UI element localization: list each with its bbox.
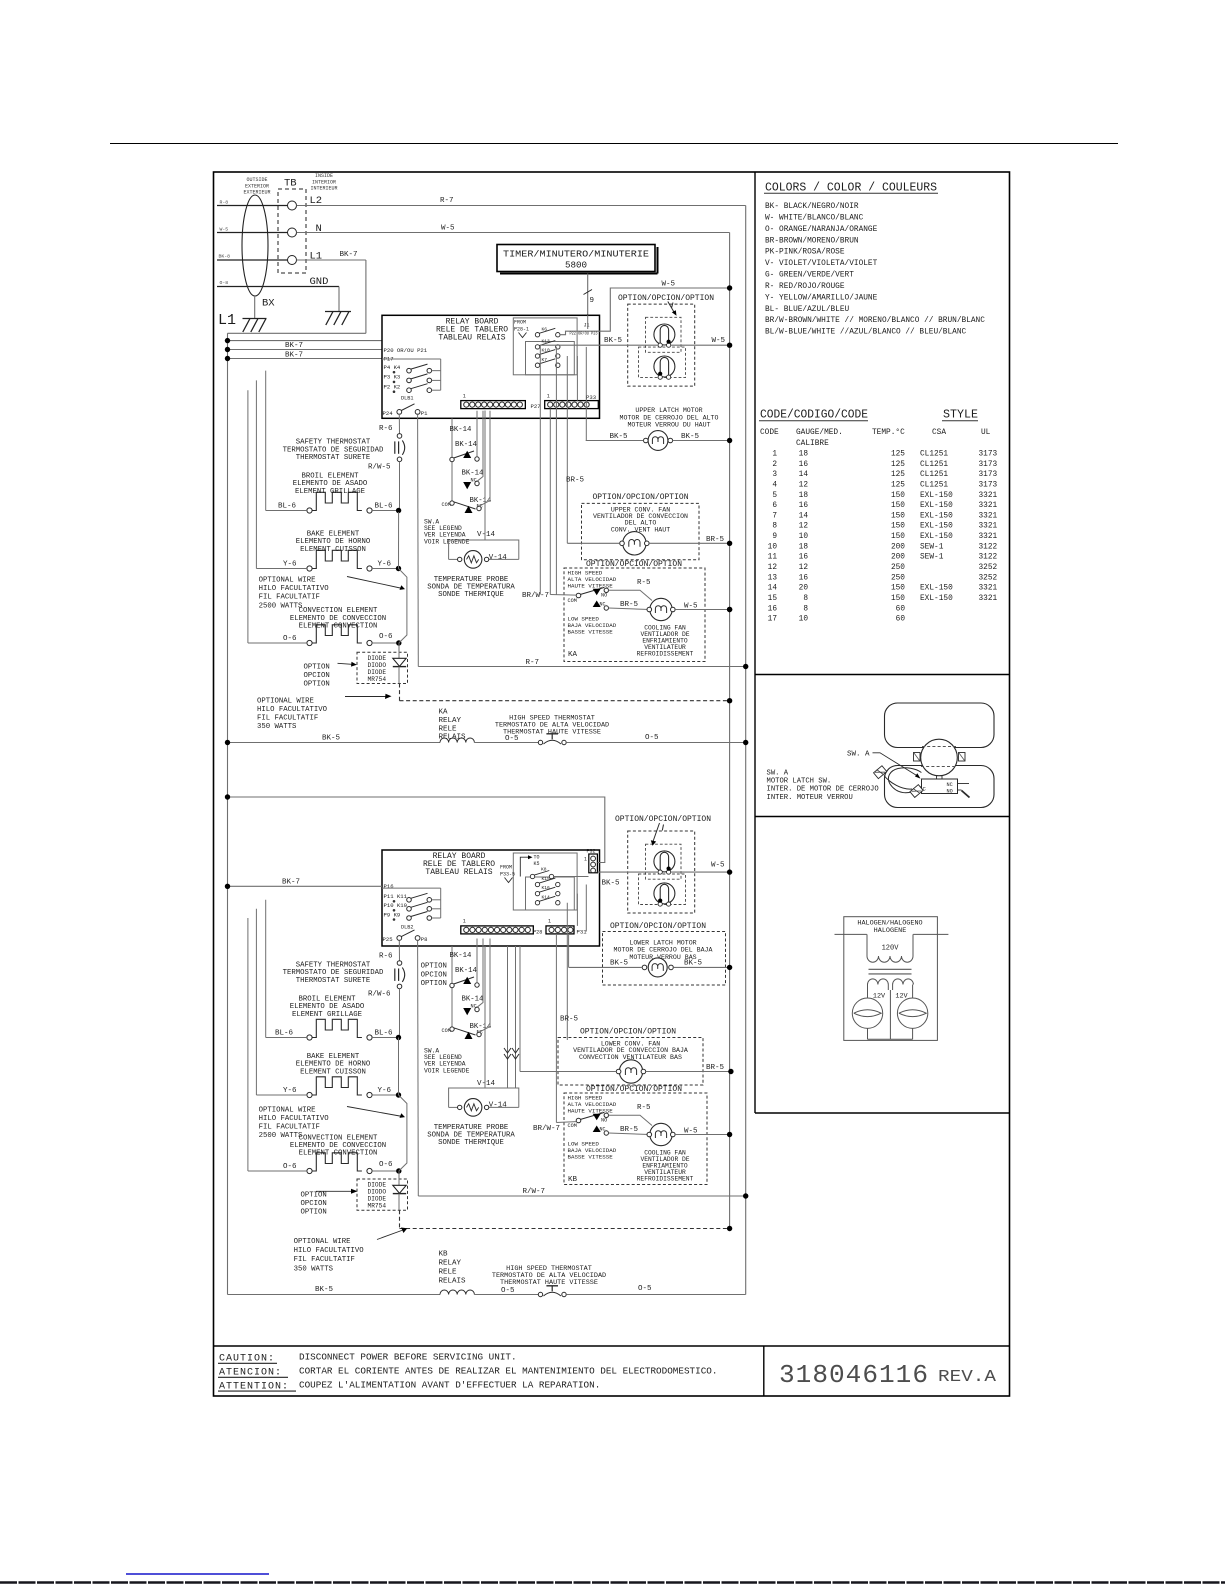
svg-text:W-5: W-5	[711, 862, 725, 870]
svg-text:V-14: V-14	[477, 1080, 496, 1088]
svg-text:SW. A: SW. A	[767, 770, 789, 778]
svg-text:CODE/CODIGO/CODE: CODE/CODIGO/CODE	[760, 409, 868, 422]
svg-text:EXL-150: EXL-150	[920, 523, 953, 531]
svg-text:BK-8: BK-8	[219, 254, 231, 260]
svg-text:KA: KA	[568, 651, 578, 659]
svg-text:12: 12	[768, 564, 778, 572]
svg-text:BR-5: BR-5	[620, 601, 639, 609]
svg-text:1: 1	[772, 451, 777, 459]
svg-text:3173: 3173	[979, 471, 998, 479]
svg-text:R-7: R-7	[526, 659, 540, 667]
svg-text:R-8: R-8	[220, 200, 229, 206]
svg-text:V-14: V-14	[489, 554, 508, 562]
svg-text:R-6: R-6	[379, 952, 393, 960]
svg-text:CL1251: CL1251	[920, 481, 948, 489]
svg-text:DIODE: DIODE	[368, 669, 387, 676]
svg-text:1: 1	[463, 919, 466, 925]
svg-text:8: 8	[803, 605, 808, 613]
svg-text:R/W-5: R/W-5	[368, 464, 391, 472]
svg-text:9: 9	[772, 533, 777, 541]
svg-text:COM: COM	[568, 1123, 577, 1129]
svg-text:STYLE: STYLE	[943, 409, 978, 422]
svg-text:INTER. MOTEUR VERROU: INTER. MOTEUR VERROU	[767, 794, 853, 802]
svg-text:150: 150	[891, 512, 905, 520]
svg-text:Y- YELLOW/AMARILLO/JAUNE: Y- YELLOW/AMARILLO/JAUNE	[765, 294, 878, 302]
svg-text:200: 200	[891, 554, 905, 562]
svg-text:10: 10	[799, 616, 809, 624]
svg-text:150: 150	[891, 585, 905, 593]
svg-text:13: 13	[768, 574, 778, 582]
svg-text:W-5: W-5	[441, 225, 455, 233]
svg-text:BL-6: BL-6	[375, 503, 394, 511]
svg-text:SW. A: SW. A	[847, 751, 870, 759]
svg-text:P20 OR/OU P21: P20 OR/OU P21	[384, 347, 428, 354]
svg-text:MR754: MR754	[368, 1203, 387, 1210]
svg-text:125: 125	[891, 451, 905, 459]
svg-text:RELE: RELE	[439, 1269, 458, 1277]
svg-text:9: 9	[590, 297, 595, 305]
svg-text:BK- BLACK/NEGRO/NOIR: BK- BLACK/NEGRO/NOIR	[765, 203, 859, 211]
svg-text:125: 125	[891, 471, 905, 479]
svg-text:ELEMENT CUISSON: ELEMENT CUISSON	[300, 546, 366, 554]
svg-text:COM: COM	[568, 598, 577, 604]
svg-text:BK-5: BK-5	[610, 433, 629, 441]
svg-text:BL-6: BL-6	[278, 503, 297, 511]
svg-text:W-5: W-5	[220, 227, 229, 233]
svg-text:P31: P31	[577, 928, 588, 935]
svg-text:7: 7	[772, 512, 777, 520]
svg-text:P33-5: P33-5	[500, 871, 515, 877]
svg-text:HILO FACULTATIVO: HILO FACULTATIVO	[257, 706, 328, 714]
svg-text:OPTION/OPCION/OPTION: OPTION/OPCION/OPTION	[615, 815, 711, 824]
svg-text:14: 14	[799, 471, 809, 479]
svg-text:60: 60	[896, 605, 906, 613]
svg-text:Y-6: Y-6	[283, 1087, 297, 1095]
svg-text:200: 200	[891, 543, 905, 551]
svg-text:BR-5: BR-5	[706, 1064, 725, 1072]
svg-text:EXL-150: EXL-150	[920, 492, 953, 500]
svg-text:10: 10	[768, 543, 778, 551]
svg-text:125: 125	[891, 461, 905, 469]
svg-text:BK-5: BK-5	[681, 433, 700, 441]
svg-text:O-8: O-8	[220, 280, 229, 286]
svg-text:RELAIS: RELAIS	[439, 1278, 467, 1286]
svg-text:OPTION: OPTION	[301, 1191, 327, 1199]
svg-text:MOTOR DE CERROJO DEL ALTO: MOTOR DE CERROJO DEL ALTO	[620, 414, 719, 421]
svg-text:BK-5: BK-5	[610, 960, 629, 968]
svg-text:K13: K13	[542, 339, 551, 345]
svg-text:15: 15	[768, 595, 778, 603]
svg-text:BK-7: BK-7	[285, 351, 303, 359]
svg-text:CORTAR EL CORIENTE ANTES DE RE: CORTAR EL CORIENTE ANTES DE REALIZAR EL …	[299, 1366, 717, 1377]
svg-text:OPTION: OPTION	[304, 663, 330, 671]
svg-text:K5: K5	[534, 861, 540, 867]
svg-text:BR-BROWN/MORENO/BRUN: BR-BROWN/MORENO/BRUN	[765, 237, 859, 245]
svg-text:K10: K10	[542, 348, 551, 354]
svg-text:G- GREEN/VERDE/VERT: G- GREEN/VERDE/VERT	[765, 272, 854, 280]
svg-text:K8: K8	[541, 867, 547, 873]
svg-text:R-7: R-7	[440, 197, 454, 205]
svg-text:P10 K10: P10 K10	[384, 902, 408, 909]
svg-text:PK-PINK/ROSA/ROSE: PK-PINK/ROSA/ROSE	[765, 249, 845, 257]
svg-text:SONDE THERMIQUE: SONDE THERMIQUE	[438, 591, 504, 599]
svg-text:SEW-1: SEW-1	[920, 554, 944, 562]
svg-text:THERMOSTAT SURETE: THERMOSTAT SURETE	[296, 454, 370, 462]
svg-text:3173: 3173	[979, 461, 998, 469]
svg-text:DIODO: DIODO	[368, 662, 387, 669]
svg-text:OPTION/OPCION/OPTION: OPTION/OPCION/OPTION	[610, 922, 706, 931]
svg-text:NO: NO	[601, 1118, 607, 1124]
svg-text:DISCONNECT POWER BEFORE SERVIC: DISCONNECT POWER BEFORE SERVICING UNIT.	[299, 1352, 517, 1363]
svg-text:K15: K15	[542, 876, 551, 882]
svg-text:1: 1	[547, 393, 550, 399]
svg-text:OPTIONAL WIRE: OPTIONAL WIRE	[257, 697, 314, 705]
svg-text:NO: NO	[947, 789, 953, 795]
svg-text:KB: KB	[439, 1251, 449, 1259]
svg-text:FIL FACULTATIF: FIL FACULTATIF	[259, 1124, 320, 1132]
svg-text:BK-7: BK-7	[340, 251, 358, 259]
svg-text:BL-6: BL-6	[375, 1030, 394, 1038]
svg-text:BR-5: BR-5	[620, 1126, 639, 1134]
svg-text:O-6: O-6	[379, 633, 393, 641]
svg-text:DLB1: DLB1	[401, 395, 413, 401]
svg-text:P8: P8	[421, 936, 428, 943]
svg-text:12V: 12V	[873, 993, 886, 1001]
svg-text:BK-14: BK-14	[462, 996, 485, 1004]
svg-text:BK-14: BK-14	[462, 470, 485, 478]
svg-text:P32: P32	[587, 849, 596, 855]
svg-text:OPCION: OPCION	[301, 1200, 327, 1208]
svg-text:INTERIEUR: INTERIEUR	[310, 186, 337, 192]
svg-text:P11 K11: P11 K11	[384, 893, 408, 900]
svg-text:P27: P27	[531, 403, 541, 410]
svg-text:VOIR LEGENDE: VOIR LEGENDE	[424, 1067, 470, 1074]
svg-text:Y-6: Y-6	[378, 1087, 392, 1095]
svg-text:CL1251: CL1251	[920, 451, 948, 459]
svg-text:EXL-150: EXL-150	[920, 595, 953, 603]
svg-text:16: 16	[799, 574, 809, 582]
svg-text:HILO FACULTATIVO: HILO FACULTATIVO	[294, 1247, 365, 1255]
svg-text:GND: GND	[310, 276, 329, 288]
svg-text:Y-6: Y-6	[283, 561, 297, 569]
svg-text:DLB2: DLB2	[401, 925, 413, 931]
svg-text:HILO FACULTATIVO: HILO FACULTATIVO	[259, 585, 330, 593]
svg-text:OPTION/OPCION/OPTION: OPTION/OPCION/OPTION	[618, 294, 714, 303]
svg-text:P28: P28	[533, 930, 542, 936]
svg-text:5: 5	[772, 492, 777, 500]
svg-text:K14: K14	[542, 894, 551, 900]
svg-text:FIL FACULTATIF: FIL FACULTATIF	[257, 715, 318, 723]
svg-text:2500 WATTS: 2500 WATTS	[259, 602, 303, 610]
svg-text:P2 K2: P2 K2	[384, 384, 401, 391]
svg-text:18: 18	[799, 543, 809, 551]
svg-text:K6: K6	[542, 326, 548, 332]
svg-text:1: 1	[548, 919, 551, 925]
svg-text:BK-7: BK-7	[285, 342, 303, 350]
svg-text:HALOGENE: HALOGENE	[874, 927, 907, 935]
svg-text:12: 12	[799, 564, 809, 572]
svg-text:BR/W-7: BR/W-7	[533, 1125, 560, 1133]
svg-text:P16: P16	[384, 883, 394, 890]
svg-text:BK-14: BK-14	[450, 426, 473, 434]
svg-text:EXTERIOR: EXTERIOR	[245, 183, 269, 189]
svg-text:KA: KA	[439, 709, 449, 717]
svg-text:R/W-7: R/W-7	[523, 1188, 546, 1196]
svg-text:3321: 3321	[979, 512, 998, 520]
svg-text:BL- BLUE/AZUL/BLEU: BL- BLUE/AZUL/BLEU	[765, 306, 850, 314]
svg-text:BASSE VITESSE: BASSE VITESSE	[568, 628, 614, 635]
svg-text:FROM: FROM	[500, 864, 512, 870]
svg-text:TO: TO	[534, 855, 540, 861]
svg-text:P33: P33	[586, 394, 596, 401]
svg-text:EXL-150: EXL-150	[920, 533, 953, 541]
svg-text:8: 8	[772, 523, 777, 531]
svg-text:12: 12	[799, 523, 809, 531]
svg-text:10: 10	[799, 533, 809, 541]
svg-text:SEW-1: SEW-1	[920, 543, 944, 551]
svg-text:N: N	[316, 223, 322, 235]
svg-text:COLORS / COLOR / COULEURS: COLORS / COLOR / COULEURS	[765, 182, 937, 195]
svg-text:W-5: W-5	[712, 337, 726, 345]
svg-text:OPTIONAL WIRE: OPTIONAL WIRE	[259, 1106, 316, 1114]
svg-text:O-5: O-5	[645, 734, 659, 742]
svg-text:CONV. VENT HAUT: CONV. VENT HAUT	[611, 526, 670, 533]
svg-text:NC: NC	[600, 1126, 606, 1132]
svg-text:3252: 3252	[979, 564, 998, 572]
svg-text:Y-6: Y-6	[378, 561, 392, 569]
svg-text:BR/W-7: BR/W-7	[522, 592, 549, 600]
svg-text:BK-5: BK-5	[602, 879, 621, 887]
svg-text:3173: 3173	[979, 451, 998, 459]
svg-text:OPTIONAL WIRE: OPTIONAL WIRE	[259, 577, 316, 585]
svg-text:OPTIONAL WIRE: OPTIONAL WIRE	[294, 1238, 351, 1246]
svg-text:W-5: W-5	[684, 1128, 698, 1136]
svg-text:REV.A: REV.A	[938, 1368, 997, 1387]
svg-text:18: 18	[799, 492, 809, 500]
svg-text:INTERIOR: INTERIOR	[312, 179, 336, 185]
svg-text:RELAY: RELAY	[439, 1260, 462, 1268]
svg-text:P25: P25	[383, 936, 393, 943]
svg-text:4: 4	[772, 481, 777, 489]
svg-text:MR754: MR754	[368, 676, 387, 683]
svg-text:BK-14: BK-14	[450, 952, 473, 960]
svg-text:12: 12	[799, 481, 809, 489]
svg-text:BK-7: BK-7	[282, 879, 300, 887]
svg-text:BK-5: BK-5	[315, 1286, 334, 1294]
svg-text:6: 6	[772, 502, 777, 510]
svg-text:8: 8	[803, 595, 808, 603]
svg-text:THERMOSTAT SURETE: THERMOSTAT SURETE	[296, 977, 370, 985]
svg-text:TIMER/MINUTERO/MINUTERIE: TIMER/MINUTERO/MINUTERIE	[503, 249, 650, 260]
svg-text:OPTION/OPCION/OPTION: OPTION/OPCION/OPTION	[586, 560, 682, 569]
svg-text:250: 250	[891, 574, 905, 582]
svg-text:250: 250	[891, 564, 905, 572]
svg-text:SONDE THERMIQUE: SONDE THERMIQUE	[438, 1139, 504, 1147]
svg-text:TABLEAU RELAIS: TABLEAU RELAIS	[425, 868, 492, 877]
svg-text:DIODO: DIODO	[368, 1189, 387, 1196]
svg-text:O- ORANGE/NARANJA/ORANGE: O- ORANGE/NARANJA/ORANGE	[765, 226, 878, 234]
svg-text:O-6: O-6	[283, 635, 297, 643]
svg-text:BX: BX	[262, 298, 275, 310]
svg-text:R-5: R-5	[637, 1104, 651, 1112]
svg-text:OUTSIDE: OUTSIDE	[246, 177, 267, 183]
svg-text:UL: UL	[981, 429, 991, 437]
svg-text:FIL FACULTATIF: FIL FACULTATIF	[259, 594, 320, 602]
svg-text:CALIBRE: CALIBRE	[796, 440, 829, 448]
svg-text:CSA: CSA	[932, 429, 946, 437]
svg-text:BR-5: BR-5	[560, 1016, 579, 1024]
svg-text:MOTOR DE CERROJO DEL BAJA: MOTOR DE CERROJO DEL BAJA	[614, 947, 713, 954]
svg-text:BK-14: BK-14	[455, 967, 478, 975]
svg-text:ELEMENT GRILLAGE: ELEMENT GRILLAGE	[295, 488, 365, 496]
svg-text:150: 150	[891, 523, 905, 531]
svg-text:BK-14: BK-14	[455, 441, 478, 449]
svg-text:125: 125	[891, 481, 905, 489]
svg-text:OPTION/OPCION/OPTION: OPTION/OPCION/OPTION	[580, 1027, 676, 1036]
svg-text:ELEMENT CONVECTION: ELEMENT CONVECTION	[299, 1150, 378, 1158]
svg-text:OPTION: OPTION	[304, 681, 330, 689]
svg-text:NO: NO	[601, 593, 607, 599]
svg-text:16: 16	[799, 554, 809, 562]
svg-text:2500 WATTS: 2500 WATTS	[259, 1132, 303, 1140]
svg-text:J1: J1	[584, 322, 590, 328]
svg-text:BL-6: BL-6	[275, 1030, 294, 1038]
svg-text:OPCION: OPCION	[421, 971, 447, 979]
svg-text:RELE: RELE	[439, 725, 458, 733]
svg-text:REFROIDISSEMENT: REFROIDISSEMENT	[637, 651, 694, 658]
svg-text:20: 20	[799, 585, 809, 593]
svg-text:11: 11	[768, 554, 778, 562]
svg-text:O-6: O-6	[283, 1163, 297, 1171]
svg-text:ELEMENT CUISSON: ELEMENT CUISSON	[300, 1068, 366, 1076]
svg-text:KB: KB	[568, 1176, 578, 1184]
svg-text:DIODE: DIODE	[368, 1196, 387, 1203]
svg-text:MOTEUR VERROU DU HAUT: MOTEUR VERROU DU HAUT	[627, 422, 710, 429]
svg-text:3321: 3321	[979, 533, 998, 541]
svg-text:16: 16	[799, 502, 809, 510]
svg-text:MOTOR LATCH SW.: MOTOR LATCH SW.	[767, 778, 832, 786]
svg-text:150: 150	[891, 492, 905, 500]
svg-text:HILO FACULTATIVO: HILO FACULTATIVO	[259, 1115, 330, 1123]
svg-text:EXTERIEUR: EXTERIEUR	[243, 190, 270, 196]
svg-text:350 WATTS: 350 WATTS	[294, 1265, 334, 1273]
svg-text:3321: 3321	[979, 585, 998, 593]
svg-text:EXL-150: EXL-150	[920, 585, 953, 593]
svg-text:L2: L2	[310, 195, 323, 207]
svg-text:R/W-6: R/W-6	[368, 991, 391, 999]
svg-text:318046116: 318046116	[779, 1360, 929, 1390]
svg-text:P3 K3: P3 K3	[384, 374, 401, 381]
svg-text:VOIR LEGENDE: VOIR LEGENDE	[424, 538, 470, 545]
svg-text:ELEMENT CONVECTION: ELEMENT CONVECTION	[299, 623, 378, 631]
svg-text:L1: L1	[310, 251, 323, 263]
svg-text:P28-1: P28-1	[514, 326, 529, 332]
svg-text:COUPEZ L'ALIMENTATION AVANT D': COUPEZ L'ALIMENTATION AVANT D'EFFECTUER …	[299, 1379, 600, 1390]
svg-text:60: 60	[896, 616, 906, 624]
svg-text:3321: 3321	[979, 492, 998, 500]
svg-text:P9 K9: P9 K9	[384, 911, 401, 918]
svg-text:UPPER LATCH MOTOR: UPPER LATCH MOTOR	[635, 407, 702, 414]
svg-text:CL1251: CL1251	[920, 461, 948, 469]
svg-text:P4 K4: P4 K4	[384, 364, 401, 371]
svg-text:14: 14	[768, 585, 778, 593]
svg-text:FIL FACULTATIF: FIL FACULTATIF	[294, 1256, 355, 1264]
svg-text:16: 16	[768, 605, 778, 613]
svg-text:BK-5: BK-5	[322, 735, 341, 743]
svg-text:5800: 5800	[565, 260, 587, 271]
svg-text:TABLEAU RELAIS: TABLEAU RELAIS	[438, 334, 505, 343]
svg-text:TB: TB	[284, 178, 297, 190]
svg-text:CL1251: CL1251	[920, 471, 948, 479]
svg-text:150: 150	[891, 595, 905, 603]
svg-text:EXL-150: EXL-150	[920, 502, 953, 510]
svg-text:BR-5: BR-5	[706, 536, 725, 544]
svg-text:BASSE VITESSE: BASSE VITESSE	[568, 1153, 614, 1160]
svg-text:TEMP.°C: TEMP.°C	[872, 428, 905, 437]
svg-text:P24: P24	[383, 410, 394, 417]
svg-text:3252: 3252	[979, 574, 998, 582]
svg-text:3122: 3122	[979, 554, 998, 562]
svg-text:1: 1	[463, 393, 466, 399]
svg-text:BK-5: BK-5	[684, 960, 703, 968]
svg-text:V-14: V-14	[477, 531, 496, 539]
svg-text:L1: L1	[218, 312, 236, 329]
svg-text:3321: 3321	[979, 523, 998, 531]
svg-text:K16: K16	[542, 885, 551, 891]
svg-text:1: 1	[584, 857, 587, 863]
svg-text:REFROIDISSEMENT: REFROIDISSEMENT	[637, 1176, 694, 1183]
svg-text:R-5: R-5	[637, 579, 651, 587]
svg-text:NC: NC	[600, 601, 606, 607]
svg-text:OPTION/OPCION/OPTION: OPTION/OPCION/OPTION	[592, 493, 688, 502]
svg-text:DIODE: DIODE	[368, 655, 387, 662]
svg-text:O-6: O-6	[379, 1161, 393, 1169]
svg-text:R- RED/ROJO/ROUGE: R- RED/ROJO/ROUGE	[765, 283, 845, 291]
svg-text:INSIDE: INSIDE	[315, 173, 333, 179]
svg-text:EXL-150: EXL-150	[920, 512, 953, 520]
svg-text:3321: 3321	[979, 502, 998, 510]
svg-text:3173: 3173	[979, 481, 998, 489]
svg-text:150: 150	[891, 533, 905, 541]
svg-text:16: 16	[799, 461, 809, 469]
svg-text:W- WHITE/BLANCO/BLANC: W- WHITE/BLANCO/BLANC	[765, 214, 864, 222]
svg-text:GAUGE/MED.: GAUGE/MED.	[796, 429, 843, 437]
svg-text:150: 150	[891, 502, 905, 510]
svg-text:BL/W-BLUE/WHITE //AZUL/BLANCO: BL/W-BLUE/WHITE //AZUL/BLANCO // BLEU/BL…	[765, 329, 967, 337]
svg-text:350 WATTS: 350 WATTS	[257, 723, 297, 731]
svg-text:ELEMENT GRILLAGE: ELEMENT GRILLAGE	[292, 1011, 362, 1019]
svg-text:CODE: CODE	[760, 429, 779, 437]
svg-text:V- VIOLET/VIOLETA/VIOLET: V- VIOLET/VIOLETA/VIOLET	[765, 260, 878, 268]
svg-text:P1: P1	[421, 410, 428, 417]
svg-text:V-14: V-14	[489, 1102, 508, 1110]
svg-text:BR/W-BROWN/WHITE // MORENO/BLA: BR/W-BROWN/WHITE // MORENO/BLANCO // BRU…	[765, 317, 985, 325]
svg-text:NC: NC	[947, 782, 953, 788]
svg-text:K7: K7	[542, 357, 548, 363]
svg-text:120V: 120V	[882, 945, 900, 953]
svg-text:2: 2	[772, 461, 777, 469]
svg-text:OPTION: OPTION	[301, 1209, 327, 1217]
svg-text:14: 14	[799, 512, 809, 520]
svg-text:O-5: O-5	[638, 1285, 652, 1293]
svg-text:O-5: O-5	[501, 1287, 515, 1295]
svg-text:BR-5: BR-5	[566, 477, 585, 485]
svg-text:OPTION: OPTION	[421, 963, 447, 971]
svg-text:OPCION: OPCION	[304, 672, 330, 680]
svg-text:FROM: FROM	[514, 319, 526, 325]
svg-text:W-5: W-5	[684, 603, 698, 611]
svg-text:LOWER LATCH MOTOR: LOWER LATCH MOTOR	[629, 939, 696, 946]
